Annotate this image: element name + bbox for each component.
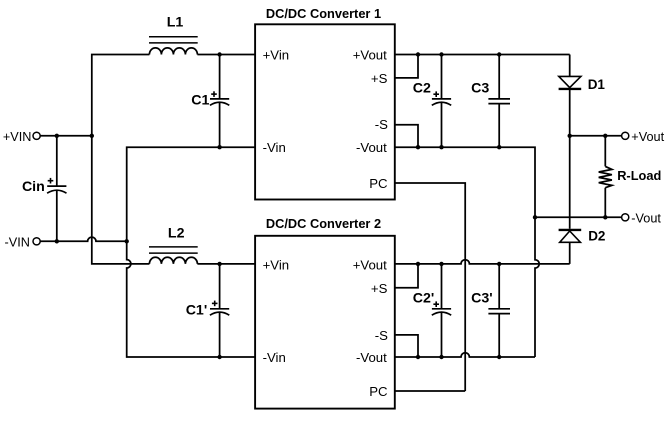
node junction -S2 on -Vout2 rail — [416, 355, 420, 359]
node junction Cin top — [55, 134, 59, 138]
node junction +S2 on +Vout2 rail — [416, 262, 420, 266]
wire PC U1 to PC U2 — [395, 183, 465, 391]
svg-text:-VIN: -VIN — [5, 235, 30, 249]
svg-text:+Vin: +Vin — [263, 48, 290, 63]
capacitor Cin — [22, 136, 67, 242]
wire L1 to U1 +Vin — [197, 54, 255, 56]
node junction D1 cathode — [568, 134, 572, 138]
wire PC U2 stub — [395, 390, 465, 392]
diode D1 — [559, 55, 606, 136]
inductor L1 — [149, 15, 198, 55]
svg-text:-Vout: -Vout — [356, 350, 387, 365]
node junction C1 top — [217, 52, 221, 56]
svg-text:PC: PC — [369, 176, 388, 191]
svg-text:-Vout: -Vout — [631, 211, 661, 225]
wire +S U1 stub — [395, 55, 418, 78]
wire U2 +Vout rail with hop over PC line — [395, 260, 570, 264]
node junction C3' top — [497, 262, 501, 266]
node junction -Vout bus — [533, 215, 537, 219]
node junction C3 top — [497, 52, 501, 56]
svg-text:+S: +S — [371, 281, 388, 296]
svg-text:PC: PC — [369, 384, 388, 399]
node junction Cin bottom — [55, 239, 59, 243]
svg-text:C3': C3' — [471, 290, 493, 306]
inductor L2 — [149, 226, 198, 264]
wire U1 -Vout rail down to -Vout bus — [395, 147, 535, 217]
svg-text:-Vout: -Vout — [356, 140, 387, 155]
capacitor C2 — [413, 55, 451, 148]
capacitor C3 — [471, 55, 510, 148]
svg-text:C2: C2 — [413, 80, 431, 96]
svg-text:+Vout: +Vout — [631, 130, 664, 144]
node junction C1 bottom — [217, 145, 221, 149]
svg-text:L2: L2 — [168, 226, 185, 242]
node junction C3' bottom — [497, 355, 501, 359]
node junction -VIN bus — [125, 239, 129, 243]
svg-text:D2: D2 — [588, 228, 605, 243]
node junction C2 top — [439, 52, 443, 56]
svg-text:-S: -S — [375, 117, 388, 132]
svg-text:C2': C2' — [413, 290, 435, 306]
terminal -VIN — [5, 235, 41, 249]
wire -S U2 stub — [395, 335, 418, 357]
terminal -Vout — [622, 211, 662, 225]
node junction C1' bottom — [217, 355, 221, 359]
svg-text:D1: D1 — [588, 77, 606, 92]
node junction -S1 on -Vout rail — [416, 145, 420, 149]
node junction R-Load top — [603, 134, 607, 138]
wire +S U2 stub — [395, 264, 418, 288]
wire U1 +Vout rail — [395, 54, 570, 56]
wire -VIN bus down to U2 -Vin with hop over L2 feed — [127, 241, 255, 357]
wire D2 cathode riser — [569, 136, 571, 229]
svg-text:+S: +S — [371, 71, 388, 86]
svg-text:Cin: Cin — [22, 179, 45, 195]
node junction +VIN riser — [90, 134, 94, 138]
svg-text:+Vin: +Vin — [263, 258, 290, 273]
wire -Vout bus down with hop over +Vout2 rail — [535, 217, 539, 357]
wire +VIN riser up to L1 — [92, 55, 150, 136]
diode D2 — [559, 228, 606, 264]
node junction C2' top — [439, 262, 443, 266]
svg-text:L1: L1 — [167, 15, 184, 31]
terminal +VIN — [3, 130, 40, 144]
svg-text:C1: C1 — [191, 93, 209, 109]
capacitor C3' — [471, 264, 510, 357]
node junction C1' top — [217, 262, 221, 266]
svg-text:DC/DC Converter 1: DC/DC Converter 1 — [266, 6, 381, 21]
node junction C3 bottom — [497, 145, 501, 149]
terminal +Vout — [622, 130, 665, 144]
svg-text:+Vout: +Vout — [353, 257, 387, 272]
capacitor C1' — [186, 264, 230, 357]
svg-text:-S: -S — [375, 328, 388, 343]
wire -Vout terminal line — [535, 216, 622, 218]
capacitor C2' — [413, 264, 451, 357]
svg-text:DC/DC Converter 2: DC/DC Converter 2 — [266, 216, 381, 231]
node junction +S1 on +Vout rail — [416, 52, 420, 56]
svg-text:-Vin: -Vin — [263, 140, 286, 155]
converter U2 box — [255, 236, 395, 409]
converter U1 box — [255, 24, 395, 199]
wire L2 to U2 +Vin — [197, 263, 255, 265]
wire -VIN rail with hop over riser — [40, 237, 126, 241]
wire +Vout terminal line — [570, 135, 622, 137]
svg-text:+Vout: +Vout — [353, 47, 387, 62]
wire +VIN rail — [40, 135, 92, 137]
svg-text:R-Load: R-Load — [617, 168, 661, 183]
resistor R-Load — [599, 136, 662, 218]
capacitor C1 — [191, 55, 229, 148]
svg-text:C1': C1' — [186, 303, 208, 319]
wire U2 -Vout rail with hop over PC line — [395, 353, 535, 357]
node junction R-Load bottom — [603, 215, 607, 219]
svg-text:-Vin: -Vin — [263, 350, 286, 365]
svg-text:C3: C3 — [471, 80, 489, 96]
wire -S U1 stub — [395, 125, 418, 147]
wire U1 -Vin to -VIN bus — [127, 147, 255, 241]
node junction C2 bottom — [439, 145, 443, 149]
node junction C2' bottom — [439, 355, 443, 359]
wire +VIN riser down to L2 — [92, 136, 150, 264]
svg-text:+VIN: +VIN — [3, 130, 32, 144]
